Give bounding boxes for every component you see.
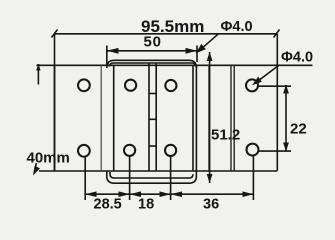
svg-text:Φ4.0: Φ4.0: [221, 19, 253, 35]
svg-text:40mm: 40mm: [27, 150, 70, 167]
hole right plate top: [246, 79, 258, 91]
hinge bottom middle edge: [110, 172, 193, 178]
arrowhead 22 top: [283, 85, 289, 94]
hinge bottom outer edge: [107, 176, 197, 183]
extension line from hinge right hole: [170, 156, 172, 200]
arrowhead 28.5 left: [85, 191, 96, 197]
arrowhead 18 left: [130, 191, 141, 197]
hole hinge bottom left: [124, 145, 135, 156]
left plate left edge: [54, 65, 56, 171]
hole hinge top left: [125, 80, 136, 91]
hinge left outer edge bottom part: [106, 171, 108, 177]
knuckle divider 3: [149, 145, 156, 147]
arrowhead 50 right: [186, 48, 198, 54]
arrowhead phi4 second leader: [252, 77, 262, 86]
knuckle divider 1: [149, 93, 156, 95]
wire tick right of 95.5: [274, 30, 280, 38]
wire tick left of 95.5: [52, 30, 58, 38]
plate top edge full width: [37, 64, 313, 66]
hole hinge bottom right: [165, 145, 176, 156]
svg-text:Φ4.0: Φ4.0: [281, 50, 313, 66]
svg-text:36: 36: [203, 197, 219, 213]
arrowhead 36 right: [243, 191, 254, 197]
arrowhead 51.2 top: [207, 52, 213, 61]
right plate left edge: [208, 65, 210, 170]
leader diagonal phi4 first: [199, 34, 219, 51]
wire 50 left extension tick: [106, 46, 108, 65]
knuckle pin right line: [155, 63, 157, 171]
hinge right inner edge: [192, 65, 194, 171]
knuckle pin left line: [148, 63, 150, 171]
leader from bottom right hole: [259, 150, 291, 152]
svg-text:50: 50: [144, 34, 162, 51]
arrowhead 36 left: [171, 191, 182, 197]
hinge right outer edge: [195, 66, 197, 177]
svg-text:18: 18: [138, 197, 154, 213]
leader diagonal phi4 second: [256, 66, 278, 83]
arrowhead 22 bottom: [283, 143, 289, 152]
wire left extension line: [54, 34, 56, 171]
wire dimension line 95.5mm: [55, 33, 277, 35]
hinge left inner edge: [113, 65, 115, 171]
wire 40mm top segment: [37, 64, 39, 85]
arrowhead 18 right: [160, 191, 171, 197]
knuckle divider 2: [149, 118, 156, 120]
extension line from hinge left hole: [129, 156, 131, 200]
wire 40mm bottom segment: [34, 163, 36, 174]
right plate groove line 1: [230, 65, 232, 171]
arrowhead phi4 first leader: [196, 44, 206, 53]
arrowhead 40mm bottom: [33, 166, 40, 176]
arrowhead 40mm top: [36, 64, 40, 71]
hole right plate bottom: [247, 144, 259, 156]
right plate groove line 2: [233, 65, 235, 171]
wire dimension line 51.2: [209, 52, 211, 183]
svg-text:51.2: 51.2: [211, 127, 240, 144]
svg-text:28.5: 28.5: [94, 197, 122, 213]
svg-text:22: 22: [290, 121, 307, 138]
extension line from left plate hole: [84, 157, 86, 200]
arrowhead 51.2 bottom: [207, 174, 213, 183]
arrowhead 50 left: [107, 48, 119, 54]
hole left plate bottom: [78, 145, 90, 157]
hole left plate top: [78, 79, 90, 91]
wire 50 right extension tick: [196, 46, 198, 63]
hole hinge top right: [165, 80, 176, 91]
hinge leaf inner top edge: [110, 63, 196, 67]
plates bottom edge full width: [39, 170, 277, 172]
extension line from right plate hole: [252, 156, 254, 201]
wire dimension line 22: [285, 85, 287, 151]
arrowhead 28.5 right: [119, 191, 130, 197]
wire right extension / right plate right edge: [276, 34, 278, 171]
wire dimension line 50: [107, 50, 197, 52]
wire chain dimension line bottom: [85, 193, 253, 195]
hinge leaf outer outline top: [107, 60, 197, 68]
left plate right edge: [100, 65, 102, 171]
leader from top right hole: [259, 85, 292, 87]
